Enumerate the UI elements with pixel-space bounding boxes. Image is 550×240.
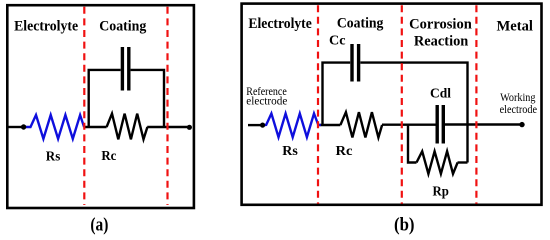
svg-text:Electrolyte: Electrolyte (248, 16, 311, 32)
svg-text:electrode: electrode (246, 96, 287, 108)
svg-text:Rc: Rc (101, 149, 116, 164)
svg-text:Cc: Cc (329, 34, 346, 49)
svg-text:Coating: Coating (99, 19, 147, 35)
svg-text:(a): (a) (90, 216, 108, 235)
svg-text:Cdl: Cdl (430, 87, 451, 102)
svg-text:Electrolyte: Electrolyte (14, 19, 78, 35)
svg-text:Rp: Rp (433, 185, 450, 200)
svg-text:Metal: Metal (497, 19, 533, 35)
svg-text:(b): (b) (394, 216, 415, 235)
svg-text:Rs: Rs (282, 144, 298, 159)
svg-text:Rc: Rc (336, 144, 353, 159)
svg-text:Rs: Rs (46, 150, 61, 165)
svg-text:Working: Working (500, 92, 536, 104)
svg-text:electrode: electrode (500, 104, 537, 116)
svg-text:Reaction: Reaction (414, 34, 469, 50)
svg-text:Corrosion: Corrosion (409, 16, 472, 32)
svg-text:Coating: Coating (337, 15, 384, 31)
